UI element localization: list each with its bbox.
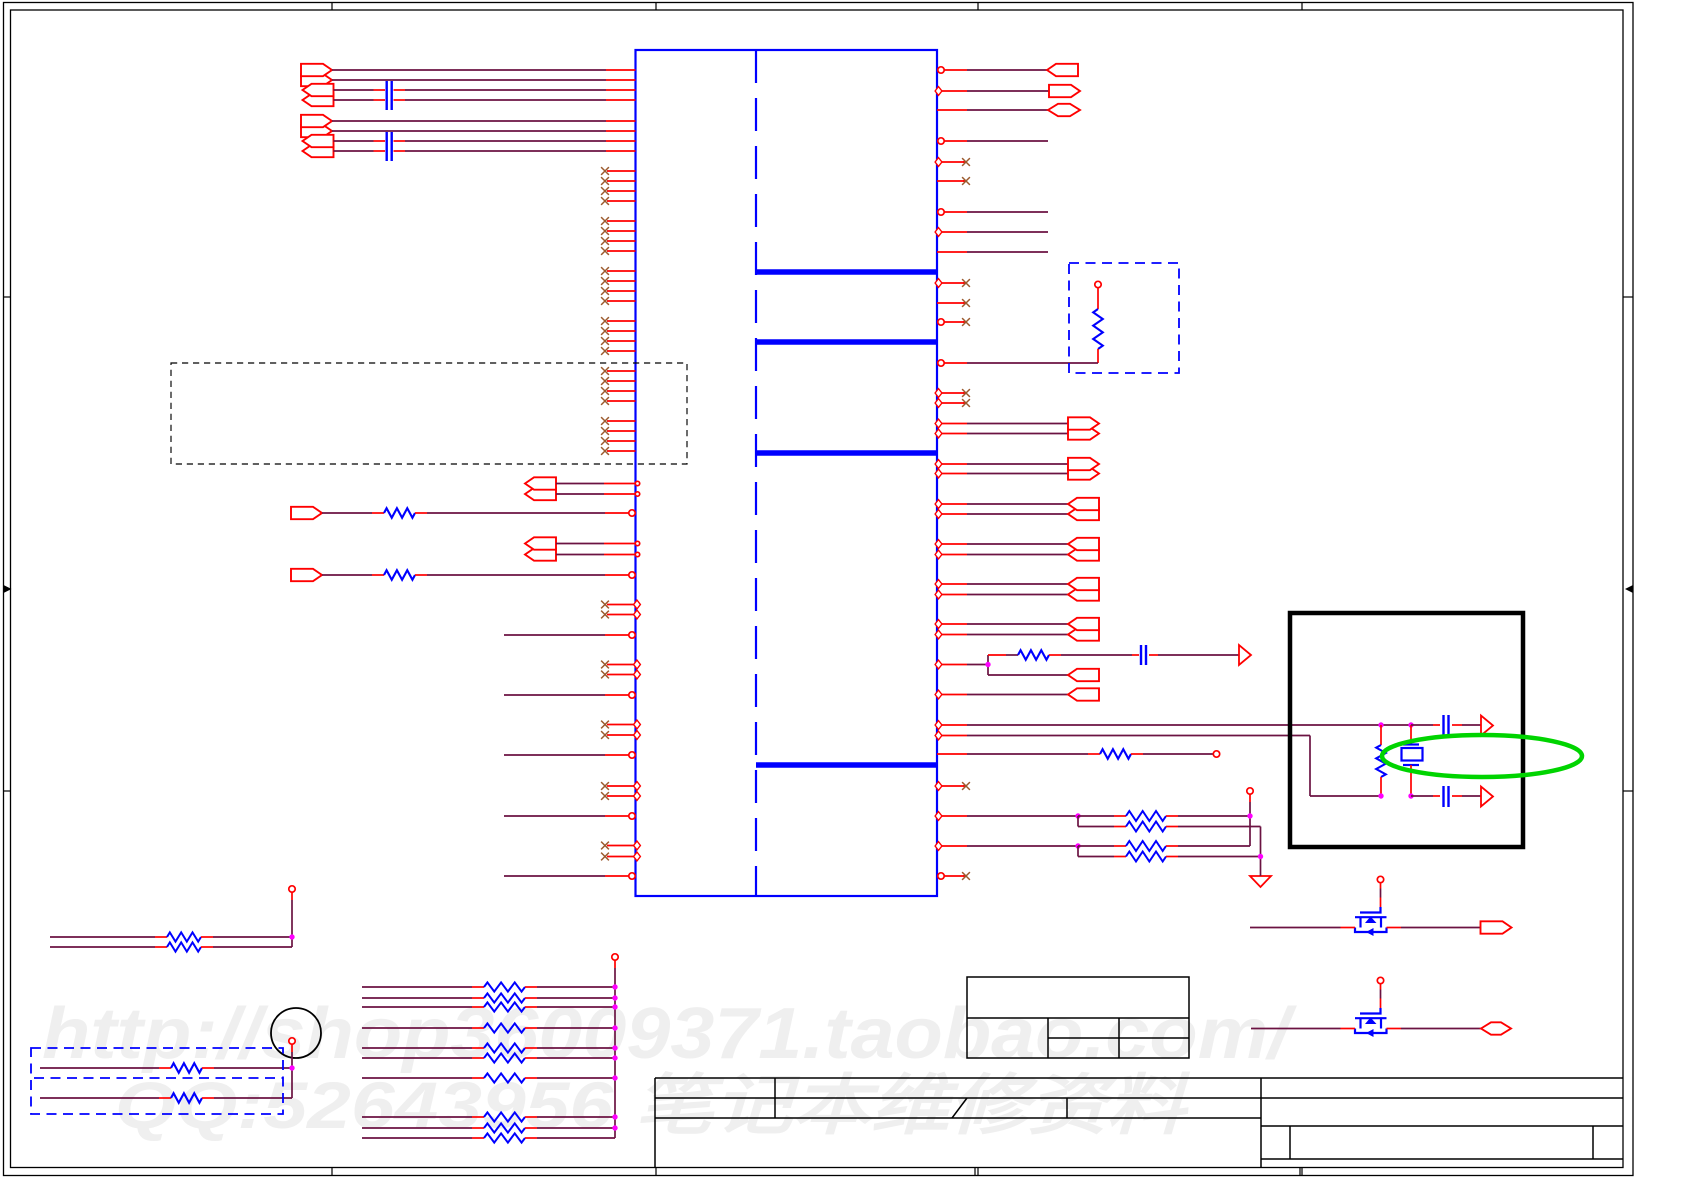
port P24 (bidirectional) bbox=[1481, 1022, 1511, 1034]
port P8 (output) bbox=[291, 569, 322, 581]
wire bbox=[1401, 927, 1481, 929]
node VCC_C bbox=[612, 954, 618, 1138]
bus segment B3 bbox=[756, 450, 937, 456]
junction bbox=[1247, 813, 1252, 818]
wire bbox=[332, 120, 636, 122]
wire bbox=[937, 251, 1048, 253]
resistor R20 bbox=[362, 1053, 615, 1062]
wire bbox=[504, 752, 635, 758]
resistor R13 bbox=[40, 1063, 292, 1073]
wire bbox=[504, 692, 635, 698]
node VCC_A bbox=[289, 886, 295, 947]
crystal Y1 bbox=[1402, 725, 1423, 796]
port P12 (double output) bbox=[1068, 417, 1099, 439]
port P17 (double input) bbox=[1068, 618, 1099, 641]
wire bbox=[935, 87, 1049, 96]
no-connect pins U1 left pair 4 bbox=[601, 782, 640, 801]
wire bbox=[937, 109, 1048, 111]
port P13 (double output) bbox=[1068, 458, 1099, 480]
wire bbox=[415, 572, 635, 578]
wire bbox=[935, 812, 1078, 821]
port P16 (double input) bbox=[1068, 578, 1099, 601]
port P19 (input) bbox=[1068, 669, 1099, 681]
resistor R11 bbox=[50, 932, 292, 941]
resistor R6 bbox=[1078, 811, 1250, 821]
junction bbox=[1075, 843, 1080, 848]
capacitor C1 bbox=[387, 81, 392, 110]
annotation dashed box (pull-up) bbox=[1069, 263, 1179, 373]
wire bbox=[935, 620, 1068, 639]
wire bbox=[1411, 795, 1440, 797]
wire bbox=[988, 654, 1018, 656]
resistor R2 bbox=[384, 570, 415, 580]
wire bbox=[504, 632, 635, 638]
resistor R17 bbox=[362, 1002, 615, 1011]
wire bbox=[332, 130, 636, 132]
wire bbox=[937, 753, 1100, 755]
no-connect pin bbox=[935, 158, 970, 167]
port P23 (output) bbox=[1481, 921, 1512, 933]
annotation dashed box bbox=[171, 363, 687, 464]
wire bbox=[415, 510, 635, 516]
resistor R4 bbox=[1018, 650, 1049, 660]
resistor R18 bbox=[362, 1023, 615, 1032]
wire bbox=[334, 150, 636, 152]
wire bbox=[322, 512, 384, 514]
wire bbox=[935, 540, 1068, 559]
no-connect pins U1 left group 3 bbox=[601, 267, 635, 305]
resistor R16 bbox=[362, 993, 615, 1002]
transistor Q1 bbox=[1341, 876, 1402, 936]
no-connect pins U1 left group 2 bbox=[601, 217, 635, 255]
junction bbox=[612, 1045, 617, 1050]
wire bbox=[938, 138, 1048, 144]
junction bbox=[612, 1025, 617, 1030]
junction bbox=[612, 1004, 617, 1009]
annotation green ellipse bbox=[1382, 735, 1582, 777]
port P4 (double input) bbox=[303, 135, 334, 157]
junction bbox=[1408, 722, 1413, 727]
no-connect pins U1 left pair 1 bbox=[601, 600, 640, 619]
svg-text:QQ:52643956 笔记本维修资料: QQ:52643956 笔记本维修资料 bbox=[115, 1068, 1191, 1142]
port P3 (double output) bbox=[301, 115, 332, 137]
no-connect pins U1 left group 4 bbox=[601, 317, 635, 355]
no-connect pin bbox=[937, 299, 970, 307]
no-connect pin bbox=[935, 399, 970, 408]
junction bbox=[612, 1055, 617, 1060]
capacitor C4 bbox=[1444, 715, 1449, 736]
junction bbox=[612, 995, 617, 1000]
resistor R8 bbox=[1078, 841, 1250, 851]
junction bbox=[289, 1065, 294, 1070]
capacitor C5 bbox=[1444, 786, 1449, 807]
svg-text:http://shop36009371.taobao.com: http://shop36009371.taobao.com/ bbox=[42, 994, 1298, 1074]
port P2 (double input) bbox=[303, 84, 334, 106]
resistor R21 bbox=[362, 1073, 615, 1082]
wire bbox=[938, 209, 1048, 215]
resistor R23 bbox=[362, 1123, 615, 1132]
wire bbox=[334, 99, 636, 101]
wire bbox=[1250, 927, 1341, 929]
wire bbox=[1411, 724, 1440, 726]
wire bbox=[935, 580, 1068, 599]
wire bbox=[504, 873, 635, 879]
IC U1 bbox=[636, 50, 938, 896]
wire bbox=[1049, 654, 1139, 656]
annotation dashed line bbox=[34, 1077, 283, 1079]
resistor R1 bbox=[384, 508, 415, 518]
junction bbox=[1258, 854, 1263, 859]
wire bbox=[988, 674, 1068, 676]
port P20 (input) bbox=[1068, 688, 1099, 700]
annotation dashed box bbox=[31, 1048, 283, 1114]
junction bbox=[985, 662, 990, 667]
wire bbox=[556, 481, 640, 496]
port P15 (double input) bbox=[1068, 538, 1099, 561]
wire bbox=[1401, 1028, 1481, 1030]
port P18 (output arrow) bbox=[1239, 645, 1251, 665]
no-connect pins U1 left group 6 bbox=[601, 417, 635, 455]
port P11 (bidirectional) bbox=[1048, 104, 1080, 116]
resistor R9 bbox=[1078, 846, 1261, 862]
no-connect pins U1 left group 5 bbox=[601, 367, 635, 405]
junction bbox=[1075, 813, 1080, 818]
no-connect pins U1 left pair 2 bbox=[601, 660, 640, 679]
junction bbox=[612, 1125, 617, 1130]
wire bbox=[935, 228, 1048, 237]
junction bbox=[612, 1075, 617, 1080]
wire bbox=[1452, 795, 1481, 797]
transistor Q2 bbox=[1341, 977, 1402, 1037]
node TERM bbox=[1213, 751, 1219, 757]
capacitor C2 bbox=[387, 132, 392, 161]
resistor R7 bbox=[1078, 816, 1261, 832]
node VCC_PU bbox=[1095, 281, 1101, 287]
resistor R12 bbox=[50, 942, 292, 951]
wire bbox=[1251, 1028, 1341, 1030]
no-connect pin bbox=[935, 782, 970, 791]
wire bbox=[935, 460, 1068, 478]
port P10 (output) bbox=[1049, 85, 1080, 97]
resistor R5 bbox=[1100, 749, 1131, 759]
bus segment B4 bbox=[756, 762, 937, 768]
wire XTAL1 bbox=[935, 721, 1411, 730]
no-connect pin bbox=[938, 872, 970, 880]
port P14 (double input) bbox=[1068, 498, 1099, 520]
wire bbox=[504, 813, 635, 819]
resistor R24 bbox=[362, 1133, 615, 1142]
node VCC_RN bbox=[1247, 788, 1253, 846]
wire bbox=[935, 500, 1068, 519]
port P9 (input) bbox=[1047, 64, 1078, 76]
no-connect pin bbox=[937, 177, 970, 185]
wire bbox=[1131, 753, 1213, 755]
wire XTAL2 bbox=[935, 731, 1381, 796]
wire bbox=[332, 79, 636, 81]
junction bbox=[1378, 722, 1383, 727]
bus segment B2 bbox=[756, 339, 937, 345]
resistor R15 bbox=[362, 982, 615, 991]
resistor R10 (feedback) bbox=[1376, 725, 1386, 796]
resistor R22 bbox=[362, 1112, 615, 1121]
port P7 (double input) bbox=[525, 537, 556, 560]
no-connect pin bbox=[935, 279, 970, 288]
annotation highlight box bbox=[1290, 613, 1523, 847]
no-connect pin bbox=[935, 389, 970, 398]
wire bbox=[938, 360, 1098, 366]
bus segment B1 bbox=[756, 269, 937, 275]
wire bbox=[1260, 827, 1262, 870]
junction bbox=[1408, 793, 1413, 798]
no-connect pins U1 left pair 5 bbox=[601, 841, 640, 861]
resistor R19 bbox=[362, 1043, 615, 1052]
wire bbox=[332, 69, 636, 71]
wire bbox=[935, 419, 1068, 438]
wire bbox=[322, 574, 384, 576]
capacitor C3 bbox=[1141, 645, 1146, 665]
annotation circle bbox=[271, 1008, 321, 1058]
junction bbox=[612, 984, 617, 989]
port P1 (double output) bbox=[301, 64, 332, 86]
junction bbox=[612, 1114, 617, 1119]
resistor R3 bbox=[1093, 288, 1103, 363]
wire bbox=[935, 690, 1068, 699]
ground bbox=[1250, 869, 1271, 887]
wire bbox=[1149, 654, 1239, 656]
junction bbox=[289, 934, 294, 939]
wire bbox=[938, 67, 1047, 73]
port P22 (clock out) bbox=[1481, 787, 1493, 807]
no-connect pins U1 left pair 3 bbox=[601, 720, 640, 739]
wire bbox=[1452, 724, 1481, 726]
wire bbox=[334, 140, 636, 142]
wire bbox=[935, 655, 988, 675]
no-connect pins U1 left group 1 bbox=[601, 167, 635, 205]
junction bbox=[1378, 793, 1383, 798]
port P21 (clock out) bbox=[1481, 716, 1493, 736]
no-connect pin bbox=[938, 318, 970, 326]
resistor R14 bbox=[40, 1093, 292, 1103]
node VCC_B bbox=[289, 1038, 295, 1098]
port P6 (output) bbox=[291, 507, 322, 519]
port P5 (double input) bbox=[525, 477, 556, 500]
wire bbox=[334, 89, 636, 91]
wire bbox=[935, 842, 1078, 851]
wire bbox=[556, 541, 640, 556]
